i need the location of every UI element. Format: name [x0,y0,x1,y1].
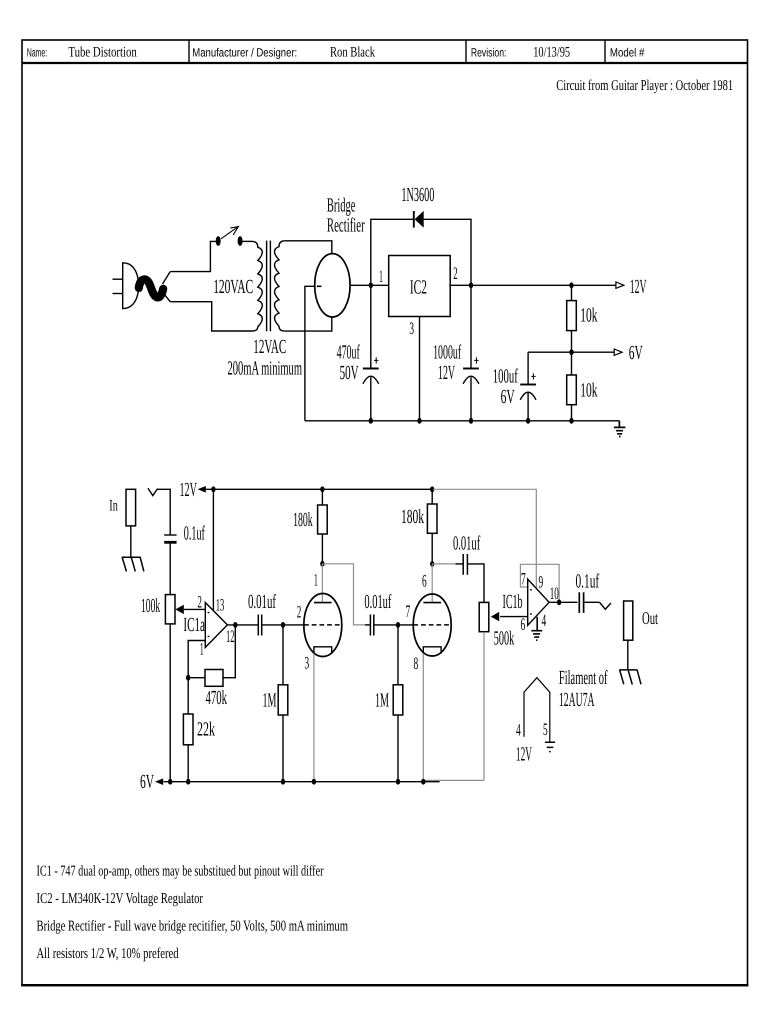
IC1a pin2 wire with wiper arrow [184,608,206,610]
node 12V rail pin13 [211,486,215,492]
tube V1b envelope [413,594,451,656]
svg-text:1M: 1M [263,689,277,711]
title block bottom line [22,62,748,64]
capacitor C3 100uf plates [520,384,536,386]
potentiometer 500k [479,602,489,631]
SECTION: powersupply [113,211,626,437]
wire IC2 pin3 to ground rail [419,317,421,421]
tube V1a grid dashed [304,624,342,626]
wire cap2 to tube2 grid [374,624,413,626]
svg-text:Rectifier: Rectifier [327,215,365,237]
svg-text:200mA minimum: 200mA minimum [228,358,303,380]
svg-text:1M: 1M [375,689,389,711]
wire neutral to transformer [170,302,243,331]
cord split bottom [163,292,171,302]
svg-text:Manufacturer / Designer:: Manufacturer / Designer: [192,46,297,60]
svg-text:In: In [109,498,118,515]
svg-text:Name:: Name: [27,46,47,60]
wire gray tube2 anode to cap3 [432,563,455,565]
switch lever with arrow [221,227,238,239]
resistor 22k [187,678,189,714]
tube V1a plate [314,602,332,604]
node 22k rail [186,779,190,785]
capacitor C1 470uf lead [370,285,372,421]
arrow 12V output [616,282,624,288]
svg-text:10/13/95: 10/13/95 [533,45,570,61]
svg-text:All resistors 1/2 W, 10% prefe: All resistors 1/2 W, 10% prefered [37,946,179,962]
capacitor 0.1uf input [164,534,176,536]
svg-text:3: 3 [409,318,414,338]
node bridge output [369,282,373,288]
IC1b input marks [530,590,532,614]
arrow 6V rail [155,778,163,785]
wire cap1 to tube1 grid [262,624,304,626]
wire 6V rail [164,781,440,783]
svg-text:2: 2 [297,602,301,622]
node cathode1 rail [312,779,316,785]
svg-text:0.01uf: 0.01uf [248,591,276,613]
SECTION: titleblock [27,45,733,94]
wire gray 6V rail extension [424,779,484,781]
svg-text:12V: 12V [438,362,455,384]
svg-text:10: 10 [550,583,559,603]
svg-text:12V: 12V [180,479,198,501]
svg-text:2: 2 [198,592,202,612]
wire cap to pot [169,542,171,595]
node R2 rail [569,418,573,424]
bridge minus mark [317,285,322,287]
AC plug prong 2 [113,293,123,295]
node 1M second grid [396,622,400,628]
svg-text:1: 1 [379,266,383,286]
wire cap4 to connector [584,601,600,603]
resistor 1M second [397,625,399,685]
wire IC1a pin13 drop [212,489,214,611]
title block divider 3 [604,40,606,63]
wire switch to transformer [243,240,253,242]
svg-text:Ron Black: Ron Black [330,45,376,61]
IC1a output wire [227,624,258,626]
resistor R1 10k upper [571,285,573,300]
wire secondary top to bridge [285,241,332,254]
SECTION: notes [37,864,349,963]
wire IC2 out [450,284,616,286]
arrow 6V output [614,349,622,355]
svg-text:3: 3 [305,652,310,672]
capacitor C2 1000uf plates [463,368,479,370]
node 6V divider tap [569,349,573,355]
svg-text:12: 12 [226,626,235,646]
C1 plus sign [374,357,378,363]
capacitor C3 100uf lead [527,352,529,421]
op-amp IC1a [205,603,227,648]
wire 6V line [528,351,614,353]
svg-text:Model #: Model # [610,46,645,60]
wire gray tube1 anode lead [321,564,323,603]
svg-text:470uf: 470uf [337,341,360,363]
node IC2 pin3 rail [417,418,421,424]
node 12V rail 180k second [430,486,434,492]
filament symbol [524,678,550,742]
svg-text:7: 7 [521,569,526,589]
node IC2 output [469,282,473,288]
svg-text:13: 13 [216,595,225,615]
wire gray IC1b feedback loop [520,564,559,602]
svg-text:Circuit from Guitar Player : O: Circuit from Guitar Player : October 198… [556,78,733,94]
svg-text:470k: 470k [206,687,228,709]
tube V1b grid dashed [413,624,451,626]
svg-text:IC1a: IC1a [183,614,205,636]
transformer core [266,241,268,332]
feedback wire [188,625,235,678]
C3 plus sign [531,373,535,379]
connector output tip [600,603,611,610]
cord split top [163,272,171,284]
connector input tip [148,488,158,495]
capacitor C1 470uf plates [363,368,379,370]
svg-text:120VAC: 120VAC [213,276,253,298]
op-amp IC1b [528,579,549,625]
svg-text:100k: 100k [141,595,160,617]
C2 plus sign [474,357,478,363]
wire gray tube2 anode lead [431,564,433,603]
IC1b pin6 wire with wiper arrow [500,616,528,618]
AC plug body [123,263,139,309]
svg-text:4: 4 [542,610,547,630]
svg-text:IC1b: IC1b [503,591,523,613]
IC1a input marks [208,613,210,637]
bridge rectifier BR1 [315,254,350,317]
svg-text:500k: 500k [494,627,514,649]
node pot 6V rail [168,779,172,785]
wire Out jack to ground [627,640,629,669]
svg-text:9: 9 [539,572,544,592]
svg-text:Filament of: Filament of [559,667,608,689]
wire gray tube V1b cathode to rail [422,654,424,782]
svg-text:12V: 12V [516,744,532,766]
jack In [126,489,136,526]
ground filament [545,742,555,751]
tube V1a envelope [304,594,342,657]
diode D1 1N3600 [413,211,415,228]
wire pot to 6V rail [169,624,171,782]
chassis ground Out [619,670,641,685]
node IC1b output [557,599,561,605]
svg-text:8: 8 [414,653,419,673]
IC1b pin4 ground [531,617,542,640]
ground symbol power supply [614,421,626,437]
svg-text:5: 5 [543,719,548,739]
wire gray pot 500k to rail [483,632,485,781]
title block divider 1 [188,40,190,63]
resistor 180k first [321,489,323,505]
capacitor 0.01uf third [456,563,464,565]
wire bridge out to IC2 pin1 [350,284,389,286]
node 12V rail 180k first [320,486,324,492]
svg-text:Revision:: Revision: [471,46,507,60]
node tube1 anode [320,561,324,567]
resistor 470k [205,670,223,687]
svg-text:Bridge: Bridge [327,195,356,217]
svg-text:12V: 12V [630,276,647,298]
IC1a pin1 wire [188,641,205,678]
svg-text:0.1uf: 0.1uf [184,522,205,544]
ground rail power supply [305,420,620,422]
SECTION: amplifier [122,486,641,785]
transformer primary winding [243,241,263,331]
chassis ground In [122,557,144,571]
svg-text:1N3600: 1N3600 [401,184,434,206]
svg-text:1000uf: 1000uf [433,341,461,363]
svg-text:50V: 50V [340,362,359,384]
capacitor 0.01uf second [365,624,370,626]
capacitor 0.01uf first [257,615,259,636]
svg-text:6V: 6V [629,342,643,364]
wire secondary bottom to bridge [285,317,332,331]
svg-text:Out: Out [642,608,658,628]
wire gray coupling tube1 to cap2 [322,564,365,625]
svg-text:1: 1 [200,639,204,659]
regulator IC2 box [389,256,451,317]
wire hot to switch [170,241,216,271]
switch contact 1 [216,236,221,246]
resistor 1M first [282,625,284,685]
AC cord [139,279,163,297]
tube V1b cathode [423,647,441,654]
AC plug prong 1 [113,278,123,280]
wire 12V rail [206,488,434,490]
node C1 rail [369,418,373,424]
svg-text:2: 2 [453,263,457,283]
svg-text:100uf: 100uf [493,365,518,387]
svg-text:0.01uf: 0.01uf [453,532,480,554]
node 1M first rail [281,779,285,785]
wire input [158,489,171,535]
svg-text:4: 4 [516,720,521,740]
svg-text:12AU7A: 12AU7A [559,689,595,711]
jack Out [624,601,633,640]
svg-text:IC1 - 747 dual op-amp, others: IC1 - 747 dual op-amp, others may be sub… [37,864,324,880]
IC1b output wire [549,601,577,603]
node cathode2 rail [421,779,425,785]
svg-text:IC2 - LM340K-12V Voltage Regul: IC2 - LM340K-12V Voltage Regulator [37,891,204,907]
svg-text:6V: 6V [140,771,154,793]
node C3 rail [526,418,530,424]
svg-text:10k: 10k [580,305,597,327]
resistor 180k second [431,489,433,504]
wire gray 12V to IC1b pin9 [433,489,536,589]
node 1M second rail [396,779,400,785]
svg-text:0.1uf: 0.1uf [576,570,600,592]
node tube2 anode [430,561,434,567]
svg-text:6: 6 [521,614,526,634]
node IC1a output [233,622,237,628]
svg-text:0.01uf: 0.01uf [364,591,391,613]
wire diode branch [371,219,471,285]
resistor R2 10k lower [571,352,573,375]
tube V1b plate [423,602,441,604]
potentiometer 100k [165,595,175,624]
svg-text:6: 6 [422,570,427,590]
svg-text:6V: 6V [501,386,515,408]
capacitor 0.1uf output [578,592,580,613]
node 1M first grid [281,622,285,628]
node feedback junction [186,675,190,681]
svg-text:1: 1 [314,570,318,590]
svg-text:180k: 180k [401,506,424,528]
wire bridge minus to ground rail [305,286,315,421]
title block divider 2 [465,40,467,63]
tube V1a cathode [314,647,332,654]
arrow 12V rail [198,486,206,493]
svg-text:10k: 10k [580,380,597,402]
wire In jack to ground [130,526,132,557]
svg-text:Bridge Rectifier - Full wave b: Bridge Rectifier - Full wave bridge reci… [37,919,349,935]
svg-text:Tube Distortion: Tube Distortion [68,45,137,61]
wire gray tube V1a cathode to rail [313,654,315,782]
svg-text:180k: 180k [293,509,313,531]
switch contact 2 [238,236,243,246]
svg-text:22k: 22k [197,719,215,741]
svg-text:12VAC: 12VAC [253,336,286,358]
svg-text:7: 7 [406,601,411,621]
svg-text:IC2: IC2 [410,276,427,298]
transformer secondary winding [275,241,285,331]
capacitor C2 1000uf lead [470,285,472,421]
node 12V divider tap [569,282,573,288]
wire cap3 to pot 500k [467,564,484,603]
node C2 rail [469,418,473,424]
